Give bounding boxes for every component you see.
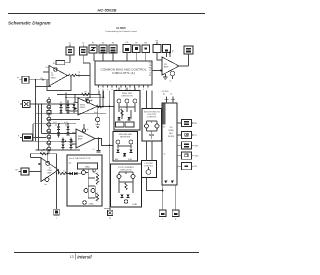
transistor Q10 in U4 top xyxy=(46,161,50,165)
svg-text:R5: R5 xyxy=(41,151,43,153)
U1 feedback loop wire xyxy=(47,76,71,91)
op-amp U6 RX xyxy=(162,57,179,75)
bus y149.9 xyxy=(36,149,81,151)
pin box L1 (TF) xyxy=(17,76,29,83)
wire pin F down xyxy=(126,53,128,62)
node at U6 input xyxy=(160,70,162,72)
right-edge pin labels of control block xyxy=(149,63,152,78)
wire T to P4 xyxy=(175,185,177,210)
diode D1 xyxy=(59,102,62,107)
pin box L4 (RF) xyxy=(15,168,29,175)
resistor R3 on feedback bus xyxy=(82,92,90,96)
transistor Q19 xyxy=(133,99,137,103)
U1 input wire - xyxy=(30,79,50,81)
svg-text:4 PAD: 4 PAD xyxy=(89,203,95,206)
svg-text:k: k xyxy=(143,89,144,91)
svg-text:Cxx: Cxx xyxy=(44,184,47,186)
svg-text:4Tx 4Rx: 4Tx 4Rx xyxy=(162,91,169,93)
svg-text:RF: RF xyxy=(15,170,18,172)
svg-text:C1: C1 xyxy=(69,43,71,45)
wire vertical at TF node xyxy=(89,63,91,97)
wire pin A down xyxy=(69,55,71,63)
svg-text:l: l xyxy=(148,89,149,91)
wire L2 to cluster xyxy=(30,103,75,105)
wire diode col 2 xyxy=(67,100,69,113)
svg-text:CONTROL: CONTROL xyxy=(147,116,158,118)
svg-text:1x: 1x xyxy=(170,81,172,83)
pin box R5 (RV) xyxy=(177,163,198,170)
bus y133.5 xyxy=(42,133,77,135)
wire control to ring trip block 3 xyxy=(126,88,128,91)
svg-text:BIAS: BIAS xyxy=(85,165,90,168)
wire diode col 5 xyxy=(67,124,69,136)
wire frame to bus xyxy=(65,93,67,112)
diode D24 in T bottom xyxy=(164,181,167,184)
capacitor C6 in Z xyxy=(149,134,154,139)
resistor R9 in X xyxy=(125,183,127,190)
transistor Q33 xyxy=(155,124,159,128)
wire RING lower xyxy=(39,137,47,139)
pin box C (CAP1) xyxy=(89,43,97,54)
transistor Q20 dangling left xyxy=(95,107,100,128)
wire diode col 1 xyxy=(60,104,62,113)
diode D13 xyxy=(69,145,72,148)
diode D26 at U4 left xyxy=(38,163,41,166)
svg-text:FEED: FEED xyxy=(51,78,56,80)
block Z wires xyxy=(147,121,158,134)
ground below U6 xyxy=(163,77,168,80)
svg-text:RD: RD xyxy=(194,123,197,125)
svg-text:R1: R1 xyxy=(53,63,55,65)
transistor Q15 xyxy=(83,201,87,205)
block T outline xyxy=(162,103,177,185)
diode D18 xyxy=(116,150,119,153)
pin box L2 (TIP) xyxy=(18,101,30,108)
pin box I (RFS) xyxy=(153,41,161,53)
diode D6 xyxy=(55,125,60,130)
op-amp U3 xyxy=(76,129,95,148)
transistor Q32 xyxy=(145,124,149,128)
pin box H (RF) xyxy=(142,43,150,53)
transistor Q5 xyxy=(46,133,51,139)
wire to P1 xyxy=(56,154,58,210)
svg-text:DETECTOR: DETECTOR xyxy=(121,169,133,171)
svg-text:P1: P1 xyxy=(92,43,94,45)
resistor R8 in Y1 xyxy=(121,109,123,116)
svg-text:4x2: 4x2 xyxy=(69,162,72,164)
svg-text:1 PAD: 1 PAD xyxy=(132,203,138,206)
diode D8 xyxy=(65,125,70,130)
U4 input wire from L4 xyxy=(29,170,41,172)
footer rule xyxy=(14,252,199,254)
block X wires xyxy=(119,172,133,193)
svg-text:RF: RF xyxy=(144,43,147,45)
pin box D (CAP2) xyxy=(99,43,107,54)
wire Z to F 1 xyxy=(146,141,148,161)
device D0 xyxy=(47,109,51,114)
op-amp U1 tip feed xyxy=(49,66,68,87)
svg-text:4x: 4x xyxy=(164,154,166,156)
resistor R2 at U1 output xyxy=(68,72,81,77)
wire pin D down xyxy=(102,53,104,61)
wire Q10 feed xyxy=(47,150,49,162)
wire diode col 7 xyxy=(70,138,72,150)
diode D10 xyxy=(61,139,64,142)
header rule xyxy=(8,13,205,15)
bottom stubs of control block xyxy=(98,85,149,91)
bus feedback y94.5 xyxy=(57,94,100,96)
svg-text:CIRCUITS (1): CIRCUITS (1) xyxy=(112,73,135,75)
wire L4 to U4 xyxy=(29,171,33,173)
node U2 out xyxy=(99,106,101,108)
block W internal wires xyxy=(84,169,96,198)
block Y2 wires xyxy=(118,144,131,149)
node U3 out xyxy=(98,138,100,140)
pin box G (TF) xyxy=(133,43,141,53)
wire control to ring trip block xyxy=(102,91,104,107)
transistor Q13 xyxy=(84,189,88,193)
svg-text:4x13: 4x13 xyxy=(64,122,68,124)
wire F down xyxy=(147,178,163,191)
sub box W1 xyxy=(78,163,98,169)
U3 input wire top xyxy=(72,132,76,134)
svg-text:P3: P3 xyxy=(112,43,114,45)
transistor Q2 xyxy=(46,103,51,109)
transistor Q11 in U4 bottom xyxy=(44,178,49,186)
svg-text:4x: 4x xyxy=(63,170,65,172)
transistor Q36 in U1 xyxy=(54,68,58,72)
transistor Q17 xyxy=(117,99,121,103)
diode D4 xyxy=(66,110,69,113)
svg-text:B+: B+ xyxy=(163,94,166,96)
U2 feedback vertical xyxy=(99,95,101,107)
capacitor C5 below U3 xyxy=(93,139,101,153)
block F outline xyxy=(142,161,157,178)
transistor Q26 xyxy=(117,175,121,179)
svg-text:TF: TF xyxy=(78,72,80,74)
svg-text:q8: q8 xyxy=(91,100,93,102)
U4 feedback left drop xyxy=(31,154,42,158)
svg-text:TF: TF xyxy=(17,78,20,80)
U4 feedback top wire xyxy=(31,153,57,155)
U2 output wire xyxy=(97,106,114,108)
svg-text:R: R xyxy=(18,136,20,138)
svg-text:WORK: WORK xyxy=(168,136,175,138)
pin box L3 (RING) xyxy=(18,134,33,141)
svg-text:R3: R3 xyxy=(84,92,86,94)
transistor Q9 on U3 xyxy=(83,124,89,132)
resistor R10 on U2 output xyxy=(97,105,102,107)
svg-text:DETECTOR: DETECTOR xyxy=(122,96,134,98)
block W outline xyxy=(67,155,102,206)
svg-text:d5: d5 xyxy=(65,125,67,127)
svg-text:WIRE: WIRE xyxy=(168,130,174,132)
transistor Q22 xyxy=(129,140,133,144)
svg-text:RV: RV xyxy=(194,166,197,168)
svg-text:15: 15 xyxy=(109,218,111,220)
wire control to inductor block 1 xyxy=(146,91,148,109)
diode D14 xyxy=(70,172,73,175)
wire pin K down to amp output xyxy=(188,54,190,66)
wire pin E down xyxy=(112,53,114,61)
diode D27 on U2 input xyxy=(75,107,78,110)
svg-text:7: 7 xyxy=(162,219,163,221)
U2 input wire bottom xyxy=(66,110,78,112)
svg-text:c5: c5 xyxy=(93,149,95,151)
pin box P2 xyxy=(108,210,113,220)
svg-text:TF: TF xyxy=(135,43,138,45)
transistor Q27 xyxy=(131,175,135,179)
svg-text:P2: P2 xyxy=(102,43,104,45)
svg-text:GKD: GKD xyxy=(194,156,199,158)
pin box R4 (GKD) xyxy=(177,152,199,159)
wire control down left 2 xyxy=(103,91,105,98)
wire W input xyxy=(77,173,82,175)
bus left y86.5 xyxy=(36,86,52,88)
node TF junction xyxy=(78,75,80,77)
wire control to inductor block 2 xyxy=(151,91,153,109)
bus y123.8 xyxy=(33,123,76,125)
wire diode col 6 xyxy=(62,138,64,150)
diode D21 xyxy=(120,195,123,198)
pin box J (TFS) xyxy=(163,45,171,53)
svg-text:x: x xyxy=(56,217,57,219)
resistor R7 vertical xyxy=(96,193,98,201)
T supply stub 2 xyxy=(171,94,176,104)
block X outline xyxy=(111,164,142,207)
svg-text:Protected by the Patents Liste: Protected by the Patents Listed xyxy=(106,30,138,33)
diode D22 xyxy=(126,195,129,198)
svg-text:q9: q9 xyxy=(87,129,89,131)
U3 input wire bottom xyxy=(72,143,76,145)
resistor R6 vertical xyxy=(96,173,98,184)
svg-text:NETWORK: NETWORK xyxy=(120,137,131,139)
svg-text:d: d xyxy=(112,89,113,91)
supply stub above U6 xyxy=(169,51,175,58)
diode D7 xyxy=(57,132,60,135)
transistor Q6 xyxy=(46,139,51,145)
wire T to P3 xyxy=(162,185,164,210)
pin box K (RX) xyxy=(184,46,193,54)
wire pin J down xyxy=(166,53,168,58)
pin box P1 xyxy=(54,209,60,219)
svg-text:E1: E1 xyxy=(149,75,151,77)
svg-text:TD: TD xyxy=(194,135,197,137)
svg-text:FEED: FEED xyxy=(80,107,86,109)
wire control to ring trip block 4 xyxy=(134,88,136,91)
footer divider bar xyxy=(74,254,76,260)
op-amp U2 xyxy=(78,98,97,115)
transistor Q18 xyxy=(125,99,129,103)
block Y1 outline xyxy=(114,91,140,131)
control block U5 xyxy=(95,61,152,85)
diode D15 xyxy=(74,172,77,175)
pin box E (C3) xyxy=(109,43,117,54)
wire TF to vertical xyxy=(77,75,90,77)
wire pin B down xyxy=(83,55,90,63)
transistor Q1 xyxy=(46,97,51,103)
vertical feeder x41.5 xyxy=(41,104,43,134)
transistor Q7 xyxy=(46,145,51,153)
U3 output wire xyxy=(95,139,113,146)
pin box A (C1) xyxy=(66,43,74,56)
diode D5 xyxy=(72,102,75,107)
svg-text:B-: B- xyxy=(171,94,173,96)
vertical feeder x38.5 xyxy=(38,104,40,150)
resistor R1 box above U1 xyxy=(53,61,70,66)
block Z outline xyxy=(142,109,162,142)
pin box R3 (SHD) xyxy=(177,142,199,149)
svg-text:PD: PD xyxy=(126,42,129,44)
block Y1 wires xyxy=(119,103,135,119)
transistor Q35 xyxy=(146,167,151,175)
svg-text:Schematic Diagram: Schematic Diagram xyxy=(8,21,51,26)
sub box Y1b xyxy=(125,122,134,127)
svg-text:COMMON BIAS AND CONTROL: COMMON BIAS AND CONTROL xyxy=(101,69,148,72)
transistor Q3b xyxy=(46,121,51,126)
svg-text:4x17: 4x17 xyxy=(53,122,57,124)
wire control block to RX amp xyxy=(152,70,162,72)
svg-text:C2: C2 xyxy=(82,43,84,45)
diode D12 xyxy=(69,139,72,142)
wire pin C down xyxy=(93,53,95,61)
wire frame left xyxy=(32,124,34,142)
transistor Q4 xyxy=(46,126,51,133)
diode D20 xyxy=(123,153,126,156)
wire diode col 3 xyxy=(73,104,75,113)
vertical feeder x35.5 xyxy=(35,80,37,142)
svg-text:V+: V+ xyxy=(172,51,175,53)
current source Q30 below U6 xyxy=(165,71,174,82)
diode D17 xyxy=(127,117,130,120)
wire diode col 4 xyxy=(58,124,60,138)
wire control down left 1 xyxy=(98,91,100,95)
pin box R2 (TD) xyxy=(177,131,197,138)
svg-text:d4: d4 xyxy=(55,125,57,127)
transistor Q28 xyxy=(124,200,128,204)
svg-text:AMP: AMP xyxy=(78,138,83,141)
wire Z to F 2 xyxy=(151,141,153,161)
wire L3 to cluster xyxy=(33,137,47,139)
transistor Q14 xyxy=(91,189,95,193)
bus y141.3 xyxy=(33,140,76,142)
U6 output wire xyxy=(179,65,189,67)
resistor R5 on feedback xyxy=(40,151,47,155)
bus long y97.2 xyxy=(66,96,103,98)
wire control to ring trip block 2 xyxy=(118,88,120,91)
svg-text:HC-5502B: HC-5502B xyxy=(116,27,126,30)
transistor Q21 xyxy=(116,140,120,144)
U1 input stub + xyxy=(43,67,49,72)
svg-text:RS: RS xyxy=(156,41,159,43)
pin box R1 (RD) xyxy=(177,119,198,126)
svg-text:8: 8 xyxy=(175,219,176,221)
svg-text:T: T xyxy=(18,102,20,104)
diode D19 xyxy=(129,150,132,153)
svg-text:SHD: SHD xyxy=(194,145,199,147)
svg-text:intersil: intersil xyxy=(77,255,92,260)
diode D16 xyxy=(117,117,120,120)
sub box Y1a xyxy=(116,122,125,127)
transistor Q12 xyxy=(82,171,86,175)
svg-text:Vxx & THE DETECTOR: Vxx & THE DETECTOR xyxy=(69,158,91,160)
wire pin I down to amp input xyxy=(157,53,162,61)
wire jog to P2 xyxy=(104,208,110,210)
pin box P3 xyxy=(159,210,166,221)
pin box B (C2) xyxy=(80,43,88,56)
transistor Q3 xyxy=(46,114,51,121)
pin box P4 xyxy=(172,210,179,221)
diode D25 in T bottom xyxy=(171,181,174,184)
transistor Q8 on U2 xyxy=(86,97,92,103)
svg-text:AMP: AMP xyxy=(164,66,169,69)
wire pin G down xyxy=(135,53,137,62)
block Y2 outline xyxy=(113,132,138,162)
diode D23 above U2 xyxy=(86,98,89,101)
diode D3 xyxy=(66,102,69,107)
T supply stub 1 xyxy=(163,94,169,104)
pin box F (PD) xyxy=(123,42,131,53)
svg-text:c: c xyxy=(107,89,108,91)
diode D11 xyxy=(61,145,64,148)
diode D2 xyxy=(59,110,62,113)
op-amp U4 xyxy=(41,158,59,182)
wire Y2 to P2 xyxy=(108,91,110,208)
bus y113.3 xyxy=(36,112,107,114)
resistor R4 at U4 output xyxy=(59,170,70,175)
svg-text:13: 13 xyxy=(70,255,74,259)
wire pin H down xyxy=(145,53,147,62)
diode D9 xyxy=(66,132,69,135)
U2 input wire top xyxy=(75,95,78,103)
svg-text:HC-5502B: HC-5502B xyxy=(98,8,117,13)
svg-text:v: v xyxy=(120,52,121,54)
wire junction dots xyxy=(35,79,164,192)
bus y119.5 xyxy=(49,119,80,121)
svg-text:Pxx: Pxx xyxy=(46,67,49,69)
